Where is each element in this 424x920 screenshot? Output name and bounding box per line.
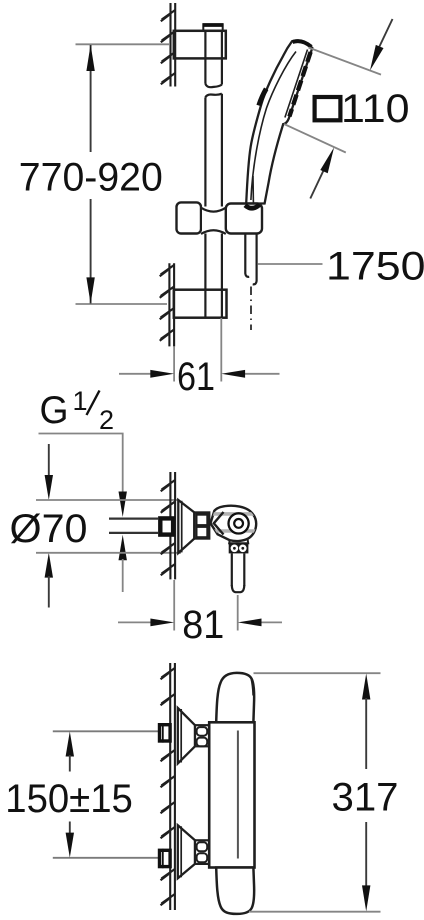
- dimension line 317: [362, 674, 370, 912]
- rail slider left knob: [177, 202, 202, 233]
- svg-text:61: 61: [177, 355, 215, 399]
- hand shower face plate (dark edge): [289, 52, 310, 117]
- hose (middle section): [232, 553, 245, 592]
- leader line 1750: [258, 263, 323, 265]
- union nut (on wall, left): [160, 518, 173, 534]
- top handle shading: [251, 678, 253, 696]
- rail top cap: [203, 24, 223, 30]
- svg-text:110: 110: [341, 87, 410, 131]
- supply pipe (into union): [109, 519, 158, 533]
- hand shower top cap (dark): [293, 41, 312, 47]
- rail slider holder (right): [226, 204, 262, 234]
- extension line (81 left, below wall): [173, 580, 175, 631]
- dimension 81 (arrows): [118, 619, 282, 627]
- wall (middle section): [170, 472, 175, 579]
- svg-text:1750: 1750: [326, 245, 424, 289]
- handle end cap (dark) in holder: [245, 205, 260, 209]
- bottom handle: [216, 868, 254, 914]
- wall hatching (middle): [161, 480, 175, 575]
- svg-text:2: 2: [99, 405, 114, 435]
- extension line (61 left, below wall): [173, 346, 175, 381]
- extension line (110 lower, slanted): [284, 124, 346, 153]
- supply pipe top (and 150±15 upper extension): [53, 730, 158, 732]
- hose connection neck: [229, 539, 248, 543]
- extension line top (770-920 upper): [76, 43, 170, 45]
- hand shower head outline: [246, 40, 312, 203]
- lower rail bracket: [174, 290, 227, 318]
- rail slider middle body: [201, 207, 226, 234]
- svg-text:1: 1: [73, 386, 88, 416]
- label G 1/2: [40, 386, 115, 435]
- svg-text:150±15: 150±15: [5, 777, 133, 821]
- wall (top, behind upper rail bracket): [171, 3, 176, 87]
- body highlight line: [237, 731, 239, 859]
- outlet circle: [229, 513, 249, 533]
- valve head shading bands: [209, 514, 256, 531]
- extension line (317 top): [254, 672, 381, 674]
- escutcheon cone bottom: [178, 825, 195, 878]
- handle middle crease: [252, 176, 254, 203]
- neck top (with rings): [195, 725, 209, 746]
- svg-text:G: G: [40, 389, 69, 432]
- valve head body: [211, 506, 257, 541]
- svg-text:317: 317: [332, 776, 399, 820]
- wall (bottom of top section, behind lower bracket): [169, 263, 174, 346]
- thermostat body: [209, 722, 254, 867]
- extension line (110 upper, slanted): [309, 48, 382, 75]
- square symbol (110): [315, 97, 341, 120]
- valve head chevron: [214, 512, 224, 535]
- leader G1/2 (horizontal + down arrow): [39, 434, 127, 593]
- hand shower control button: [259, 89, 266, 106]
- outlet inner circle: [234, 519, 243, 528]
- valve neck cylinder: [194, 512, 209, 538]
- arrow to lower 110 extension (from bottom): [310, 147, 334, 198]
- arrow to upper 110 extension (from top right): [370, 19, 393, 71]
- dimension 150±15: [66, 732, 74, 858]
- upper rail bracket: [174, 31, 226, 59]
- svg-text:81: 81: [182, 603, 224, 647]
- shower hose (upper part): [245, 234, 256, 285]
- dimension line 770-920: [86, 45, 94, 304]
- wall hatching (bottom wall of top section): [160, 265, 174, 341]
- union nut bottom: [160, 849, 171, 868]
- top handle: [216, 673, 254, 722]
- hose nut (knurled): [229, 543, 249, 553]
- escutcheon cone: [178, 500, 194, 553]
- extension line (317 bottom): [249, 911, 381, 913]
- wall hatching (bottom section): [161, 668, 175, 905]
- supply pipe bottom (and 150±15 lower extension): [53, 857, 158, 859]
- svg-text:770-920: 770-920: [19, 156, 163, 200]
- wall hatching (top wall): [161, 10, 175, 84]
- neck bottom (with rings): [195, 840, 209, 864]
- svg-text:Ø70: Ø70: [10, 507, 88, 551]
- union nut top: [160, 723, 171, 742]
- dimension Ø70 (vertical arrows): [45, 444, 53, 608]
- extension line (61 right, below bracket): [220, 318, 222, 382]
- shower rail (vertical bar): [205, 31, 222, 318]
- hose centerline (dash-dot): [250, 287, 252, 331]
- extension line bottom (770-920 lower): [76, 303, 168, 305]
- neck rings: [196, 515, 207, 526]
- escutcheon cone top: [178, 708, 195, 764]
- extension lines Ø70: [36, 499, 179, 501]
- extension line (81 right, hose centerline): [237, 595, 239, 631]
- wall (bottom section): [170, 663, 175, 910]
- hand shower inner crease lines: [251, 50, 308, 201]
- dimension 61 (arrows): [119, 370, 280, 378]
